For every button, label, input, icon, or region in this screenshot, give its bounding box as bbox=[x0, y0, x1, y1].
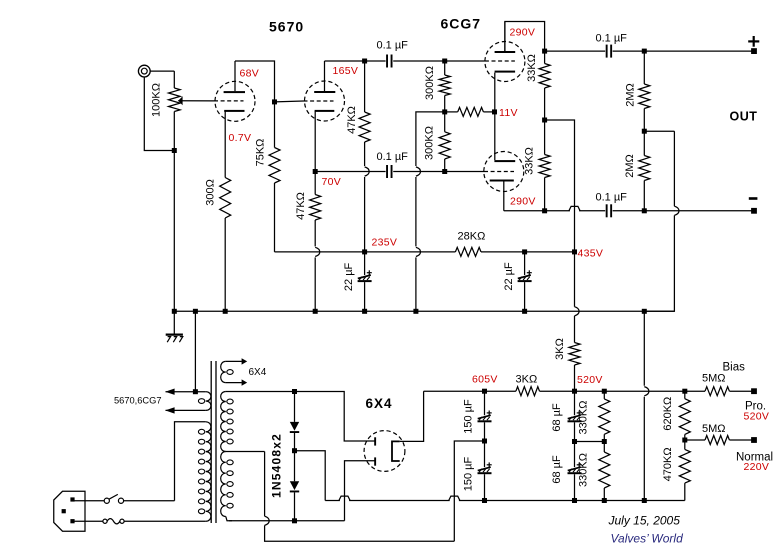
node 330K top junction bbox=[602, 389, 607, 394]
svg-text:68V: 68V bbox=[240, 68, 260, 80]
winding heater-6X4 loops bbox=[221, 361, 234, 382]
arrow heater-6X4 bottom bbox=[242, 379, 248, 385]
label 5670,6CG7 bbox=[114, 396, 162, 406]
resistor R18 330K zigzag bbox=[599, 452, 610, 488]
svg-text:330KΩ: 330KΩ bbox=[578, 401, 590, 435]
svg-text:3KΩ: 3KΩ bbox=[554, 338, 566, 360]
svg-text:OUT: OUT bbox=[730, 110, 758, 124]
svg-text:300Ω: 300Ω bbox=[205, 179, 217, 206]
wire switch to primary riser bbox=[123, 500, 174, 502]
svg-text:July 15, 2005: July 15, 2005 bbox=[608, 514, 681, 528]
wire R7 bottom to node D bbox=[444, 159, 446, 172]
node rail A 68uF bbox=[572, 498, 577, 503]
label plus symbol bbox=[748, 36, 759, 47]
svg-text:165V: 165V bbox=[333, 65, 359, 77]
wire E-drop middle bbox=[415, 177, 417, 246]
label Normal bbox=[736, 452, 773, 464]
tube V2b plate lead down bbox=[503, 182, 505, 211]
label Pro. bbox=[745, 401, 766, 413]
label 290V upper bbox=[510, 27, 536, 39]
wire hop to C4 bbox=[579, 210, 605, 212]
label 6CG7 title bbox=[441, 16, 482, 32]
wire 3K to 520V node bbox=[540, 390, 575, 392]
node D junction (444.7,171.5) bbox=[442, 169, 447, 174]
label 11V bbox=[499, 107, 518, 119]
winding primary loops bbox=[198, 422, 211, 521]
wire R11 bottom to node I bbox=[643, 109, 645, 132]
capacitor C6 22uF electrolytic bbox=[518, 270, 532, 282]
wire -row to hop bbox=[545, 210, 570, 212]
wire C1 to node C bbox=[393, 60, 445, 62]
terminal minus-out square bbox=[751, 208, 757, 214]
tube V2b cathode bar bbox=[494, 160, 515, 162]
svg-text:520V: 520V bbox=[577, 374, 603, 386]
wire fb-gnd hop over B+ row bbox=[644, 387, 649, 396]
label 620K&#937; bbox=[662, 397, 674, 431]
wire to 435V node bbox=[525, 251, 575, 253]
label 290V lower bbox=[510, 196, 536, 208]
svg-text:68 µF: 68 µF bbox=[551, 403, 563, 432]
wire R5 top lead bbox=[314, 172, 316, 195]
tube V1b cathode bar bbox=[315, 110, 335, 112]
svg-text:0.1 µF: 0.1 µF bbox=[377, 151, 409, 163]
wire diode mid to rail A corner bbox=[295, 451, 326, 501]
wire mid node down to C8 bbox=[484, 441, 486, 467]
node gnd R5 bbox=[313, 309, 318, 314]
resistor R20 5M zigzag bbox=[705, 436, 729, 445]
label 33K&#937; upper bbox=[526, 54, 538, 82]
svg-text:5670: 5670 bbox=[269, 19, 304, 35]
wire pot top lead bbox=[173, 71, 175, 88]
wire center tap hop over sec-bottom bbox=[265, 516, 270, 525]
wire E-drop lower bbox=[415, 257, 417, 311]
svg-text:5670,6CG7: 5670,6CG7 bbox=[114, 396, 162, 406]
potentiometer wiper arrow bbox=[178, 96, 182, 105]
wire R8 to 11V node bbox=[483, 111, 494, 113]
label 6X4 title bbox=[366, 396, 393, 411]
label 68uF first bbox=[551, 403, 563, 432]
svg-text:28KΩ: 28KΩ bbox=[458, 231, 486, 243]
wire -row hop over 435V line bbox=[569, 206, 580, 210]
wire 22uF-1 lower lead bbox=[364, 282, 366, 311]
label 150uF first bbox=[463, 399, 475, 434]
diode D2 1N5408 bbox=[290, 481, 299, 492]
label 470K&#937; bbox=[662, 447, 674, 481]
wire +out node to R9 bbox=[544, 51, 546, 63]
wire pot bottom to ground rail bbox=[173, 112, 175, 312]
wire fb-gnd drop lower bbox=[643, 397, 645, 501]
wire primary riser bbox=[175, 422, 206, 501]
wire secondary bottom row bbox=[229, 520, 345, 522]
wire 68uF mid row bbox=[575, 441, 605, 443]
wire node I down to R12 bbox=[643, 131, 645, 155]
svg-text:2MΩ: 2MΩ bbox=[625, 83, 637, 107]
tube 6X4 cathode bracket bbox=[392, 441, 400, 461]
label C2 0.1uF bbox=[377, 151, 409, 163]
wire R10 bottom to -out row bbox=[544, 178, 546, 211]
tube V1b envelope bbox=[305, 81, 345, 121]
svg-text:Bias: Bias bbox=[723, 362, 746, 374]
wire R5 hop over 235V rail bbox=[315, 247, 320, 256]
wire V2a plate rail bbox=[505, 22, 545, 52]
wire secondary bottom bend bbox=[226, 517, 232, 521]
label 220V red bbox=[744, 461, 770, 473]
wire 330K-1 bottom lead bbox=[603, 434, 605, 441]
svg-text:330KΩ: 330KΩ bbox=[578, 453, 590, 487]
label 1N5408x2 bbox=[270, 433, 284, 498]
terminal bias square bbox=[751, 388, 757, 394]
label 5670 title bbox=[269, 19, 304, 35]
resistor R17 330K zigzag bbox=[599, 399, 610, 434]
node bias mid junction bbox=[682, 438, 687, 443]
tube V2a grid dashed line bbox=[485, 60, 515, 62]
terminal normal square bbox=[751, 437, 757, 443]
svg-text:620KΩ: 620KΩ bbox=[662, 397, 674, 431]
wire B+ rail to 605V node bbox=[424, 390, 485, 392]
node F junction (544.6,120) bbox=[542, 118, 547, 123]
node diode bottom junction bbox=[292, 518, 297, 523]
label 165V bbox=[333, 65, 359, 77]
node heater-left junction bbox=[193, 389, 198, 394]
label 6X4 small bbox=[249, 367, 267, 378]
AC plug outline bbox=[54, 491, 85, 531]
wire 330K-2 bottom lead bbox=[603, 488, 605, 501]
node gnd 22uF-2 bbox=[522, 309, 527, 314]
tube V2a plate lead bbox=[504, 22, 506, 52]
label 70V bbox=[322, 176, 342, 188]
wire rail A segment 3 bbox=[459, 500, 685, 502]
wire 22uF-2 lower lead bbox=[524, 282, 526, 311]
wire node I right bbox=[644, 130, 674, 132]
svg-text:22 µF: 22 µF bbox=[503, 262, 515, 291]
wire 330K-2 top lead bbox=[603, 442, 605, 453]
svg-text:0.1 µF: 0.1 µF bbox=[377, 40, 409, 52]
label Valves World bbox=[611, 532, 684, 546]
wire 330K-1 top lead bbox=[603, 391, 605, 399]
label 435V bbox=[578, 248, 604, 260]
resistor R8 grid stopper zigzag bbox=[458, 107, 484, 116]
svg-text:290V: 290V bbox=[510, 196, 536, 208]
node 22uF-2 top junction bbox=[522, 249, 527, 254]
tube V1a envelope bbox=[215, 81, 255, 121]
label 300K&#937; upper bbox=[424, 66, 436, 100]
wire 3K bottom to 520V node bbox=[574, 365, 576, 391]
tube V1a cathode lead bbox=[224, 111, 226, 178]
node I junction (644.3,131.2) bbox=[642, 129, 647, 134]
capacitor C1 0.1uF bbox=[386, 55, 392, 68]
wire 605V to 3K bbox=[485, 390, 516, 392]
wire node C down to R6 bbox=[444, 61, 446, 75]
wire ground rail bbox=[172, 310, 674, 312]
label 68V bbox=[240, 68, 260, 80]
node rail A 330K bbox=[602, 498, 607, 503]
wire 235V rail left segment bbox=[275, 251, 365, 253]
wire fuse to primary bottom bbox=[124, 520, 206, 522]
wire fb drop upper bbox=[673, 131, 675, 206]
wire V1b plate rail bbox=[325, 60, 365, 62]
svg-text:22 µF: 22 µF bbox=[343, 262, 355, 291]
tube 6X4 plate2 bar bbox=[374, 457, 376, 465]
svg-text:3KΩ: 3KΩ bbox=[516, 374, 538, 386]
winding heater-left bottom wire bbox=[166, 409, 206, 411]
capacitor C10 68uF electrolytic bbox=[568, 462, 582, 474]
wire V2b plate to -row bbox=[504, 210, 545, 212]
label 605V bbox=[472, 374, 498, 386]
wire C10 to rail A bbox=[574, 474, 576, 500]
resistor R7 300K zigzag bbox=[439, 132, 450, 159]
wire 235V rail segment 3 bbox=[365, 251, 456, 253]
svg-text:100KΩ: 100KΩ bbox=[151, 83, 163, 117]
wire node B down to R4 bbox=[364, 61, 366, 112]
label 300K&#937; lower bbox=[424, 126, 436, 160]
label 47K&#937; plate load bbox=[346, 106, 358, 134]
winding heater-left loops bbox=[198, 392, 211, 411]
label 235V bbox=[372, 237, 398, 249]
switch S1 bbox=[104, 494, 123, 503]
node 435V junction bbox=[572, 249, 577, 254]
node 330K mid junction bbox=[602, 439, 607, 444]
terminal plus-out square bbox=[751, 48, 757, 54]
node rail A 150uF bbox=[482, 498, 487, 503]
tube V1b plate bar bbox=[314, 91, 335, 93]
tube 6X4 envelope bbox=[364, 431, 405, 472]
tube V2b plate bar bbox=[490, 180, 514, 182]
capacitor C7 150uF electrolytic bbox=[478, 411, 492, 423]
wire 5M to bias terminal bbox=[729, 390, 754, 392]
wire rail B riser bbox=[454, 441, 484, 541]
resistor R5 47K cathode zigzag bbox=[310, 195, 321, 221]
svg-text:235V: 235V bbox=[372, 237, 398, 249]
wire 470K to rail A end bbox=[684, 483, 686, 500]
node gnd fb bbox=[642, 309, 647, 314]
AC plug pin1 bbox=[70, 497, 74, 501]
tube V2b grid dashed line bbox=[484, 171, 514, 173]
wire bias mid down to 470K bbox=[684, 440, 686, 449]
resistor R12 2M zigzag bbox=[639, 156, 650, 181]
wire 22uF-1 upper lead bbox=[364, 252, 366, 275]
svg-text:68 µF: 68 µF bbox=[551, 455, 563, 484]
svg-text:0.1 µF: 0.1 µF bbox=[596, 192, 628, 204]
wire node F down to R10 bbox=[544, 120, 546, 155]
wire R3 bottom to 235V rail bbox=[274, 183, 276, 252]
svg-text:300KΩ: 300KΩ bbox=[424, 66, 436, 100]
node diode mid junction bbox=[292, 448, 297, 453]
wire 435V down to rail hop bbox=[574, 252, 576, 307]
label 520V red right bbox=[744, 411, 770, 423]
wire 70V node to C2 bbox=[315, 171, 385, 173]
svg-text:150 µF: 150 µF bbox=[463, 456, 475, 491]
winding secondary upper bbox=[221, 392, 234, 452]
wire wiper to V1a grid bbox=[178, 100, 214, 102]
wire node H to +terminal bbox=[644, 50, 754, 52]
node gnd R2 bbox=[223, 309, 228, 314]
wire rail A segment 1 bbox=[325, 500, 340, 502]
label 300&#937; bbox=[205, 179, 217, 206]
wire rail A segment 2 bbox=[349, 500, 450, 502]
label 22uF second bbox=[503, 262, 515, 291]
capacitor C3 0.1uF bbox=[606, 45, 612, 58]
svg-text:33KΩ: 33KΩ bbox=[524, 147, 536, 175]
node 150uF mid junction bbox=[482, 439, 487, 444]
svg-text:47KΩ: 47KΩ bbox=[295, 192, 307, 220]
capacitor C9 68uF electrolytic bbox=[568, 411, 582, 423]
wire node E to R8 bbox=[445, 111, 458, 113]
label 150uF second bbox=[463, 456, 475, 491]
label 520V bbox=[577, 374, 603, 386]
wire 28K to 22uF-2 node bbox=[481, 251, 525, 253]
wire C8 to rail A bbox=[484, 474, 486, 500]
wire node A to V1b grid bbox=[275, 100, 304, 103]
wire node E left then down bbox=[416, 112, 445, 166]
label 2M&#937; lower bbox=[624, 154, 636, 178]
resistor R10 33K zigzag bbox=[539, 155, 550, 178]
resistor R11 2M zigzag bbox=[639, 84, 650, 109]
node diode top junction bbox=[292, 389, 297, 394]
arrow heater-left bottom bbox=[165, 407, 174, 413]
label 28K&#937; bbox=[458, 231, 486, 243]
wire C9 to mid bbox=[574, 422, 576, 441]
node H junction (644.3,51.1) bbox=[642, 49, 647, 54]
ground symbol bbox=[166, 311, 183, 342]
wire plug to switch bbox=[74, 500, 104, 502]
tube V2a cathode lead bbox=[494, 73, 496, 112]
resistor R2 300ohm zigzag bbox=[220, 178, 231, 219]
wire R6 bottom to node E bbox=[444, 96, 446, 112]
wire 330K node to bias node bbox=[604, 390, 685, 392]
wire secondary top to plate1 drop bbox=[295, 392, 375, 442]
wire node C to V2a grid bbox=[445, 60, 485, 62]
resistor R13 28K zigzag bbox=[455, 247, 481, 256]
tube V1b plate lead bbox=[324, 61, 326, 91]
resistor R4 47K zigzag bbox=[359, 112, 370, 142]
node A junction (274.5,101.9) bbox=[272, 99, 277, 104]
label 3K&#937; vertical bbox=[554, 338, 566, 360]
tube 6X4 plate1 bar bbox=[374, 437, 376, 445]
resistor R6 300K zigzag bbox=[439, 75, 450, 96]
svg-text:6CG7: 6CG7 bbox=[441, 16, 482, 32]
node C junction (444.7,61) bbox=[442, 59, 447, 64]
tube V2b envelope bbox=[484, 152, 524, 192]
wire R4 bottom lower bbox=[364, 177, 366, 252]
label 2M&#937; upper bbox=[625, 83, 637, 107]
node 70V junction bbox=[313, 169, 318, 174]
resistor R15 3K zigzag bbox=[516, 387, 540, 396]
svg-text:5MΩ: 5MΩ bbox=[702, 423, 726, 435]
capacitor C8 150uF electrolytic bbox=[478, 462, 492, 474]
wire heater ground drop bbox=[194, 311, 196, 391]
node gnd heater drop bbox=[193, 309, 198, 314]
tube V1a cathode bar bbox=[224, 110, 244, 112]
wire node G to -terminal bbox=[644, 210, 754, 212]
svg-text:435V: 435V bbox=[578, 248, 604, 260]
wire R2 bottom to ground rail bbox=[224, 218, 226, 311]
wire bias top to 620K bbox=[684, 391, 686, 399]
svg-text:300KΩ: 300KΩ bbox=[424, 126, 436, 160]
label OUT bbox=[730, 110, 758, 124]
label 68uF second bbox=[551, 455, 563, 484]
svg-text:5MΩ: 5MΩ bbox=[702, 373, 726, 385]
label 330K&#937; first bbox=[578, 401, 590, 435]
winding heater-left top wire bbox=[166, 391, 206, 393]
node +out junction (544.6,51.1) bbox=[542, 49, 547, 54]
wire secondary top bbox=[226, 391, 295, 393]
AC plug pin3 bbox=[70, 519, 74, 523]
wire node D to V2b grid bbox=[445, 171, 484, 173]
arrow heater-left top bbox=[165, 389, 174, 395]
label 0.7V bbox=[229, 132, 252, 144]
wire 435V hop over ground rail bbox=[575, 307, 580, 316]
node 11V junction bbox=[492, 109, 497, 114]
svg-text:6X4: 6X4 bbox=[249, 367, 267, 378]
winding heater-6X4 top wire bbox=[226, 360, 242, 362]
wire rail A hop over plate2 drop bbox=[339, 496, 350, 500]
svg-text:0.1 µF: 0.1 µF bbox=[596, 33, 628, 45]
label C1 0.1uF bbox=[377, 40, 409, 52]
wire jack tip to pot top bbox=[150, 70, 174, 72]
wire R12 bottom to node G bbox=[643, 181, 645, 211]
wire mid down to C10 bbox=[574, 442, 576, 468]
svg-text:Valves’ World: Valves’ World bbox=[611, 532, 684, 546]
label C4 0.1uF bbox=[596, 192, 628, 204]
capacitor C2 0.1uF bbox=[386, 165, 392, 178]
label 5M&#937; lower bbox=[702, 423, 726, 435]
wire R4 line hop over row bbox=[365, 167, 370, 176]
wire 435V to 3K bbox=[574, 316, 576, 343]
arrow heater-6X4 top bbox=[242, 358, 248, 364]
wire center tap drop lower bbox=[265, 525, 455, 541]
wire 5M2 to normal terminal bbox=[729, 439, 754, 441]
label July 15 2005 bbox=[608, 514, 681, 528]
wire center tap bbox=[226, 451, 265, 453]
resistor R3 75K zigzag bbox=[269, 148, 280, 184]
svg-text:11V: 11V bbox=[499, 107, 518, 119]
wire 6X4 plate2 drop bbox=[345, 461, 375, 521]
svg-text:33KΩ: 33KΩ bbox=[526, 54, 538, 82]
resistor R14 3K zigzag bbox=[569, 343, 580, 366]
resistor R21 470K zigzag bbox=[679, 449, 690, 483]
capacitor C5 22uF electrolytic bbox=[358, 270, 372, 282]
svg-text:470KΩ: 470KΩ bbox=[662, 447, 674, 481]
diode D1 1N5408 bbox=[290, 422, 299, 433]
node -row junction (544.6,210.8) bbox=[542, 208, 547, 213]
svg-text:6X4: 6X4 bbox=[366, 396, 393, 411]
tube V1a grid dashed line bbox=[214, 100, 244, 102]
svg-text:0.7V: 0.7V bbox=[229, 132, 252, 144]
resistor R9 33K zigzag bbox=[539, 64, 550, 89]
wire 620K to bias mid bbox=[684, 434, 686, 440]
wire R5 bottom lower bbox=[314, 257, 316, 311]
winding secondary lower bbox=[221, 452, 234, 517]
wire 22uF-2 upper lead bbox=[524, 252, 526, 275]
wire diode string top bbox=[294, 392, 296, 422]
node jack-ground junction bbox=[172, 148, 177, 153]
wire R5 bottom upper bbox=[314, 220, 316, 246]
wire E-drop hop over 235V rail bbox=[416, 247, 421, 256]
resistor R19 620K zigzag bbox=[679, 399, 690, 435]
svg-text:2MΩ: 2MΩ bbox=[624, 154, 636, 178]
label minus symbol bbox=[749, 197, 758, 200]
tube V2a cathode bar bbox=[495, 71, 515, 73]
wire bias mid to 5M2 bbox=[685, 439, 705, 441]
svg-text:150 µF: 150 µF bbox=[463, 399, 475, 434]
node B junction (364.6,61) bbox=[362, 59, 367, 64]
wire C3 to node H bbox=[613, 50, 645, 52]
label 330K&#937; second bbox=[578, 453, 590, 487]
node gnd 22uF-1 bbox=[362, 309, 367, 314]
svg-text:70V: 70V bbox=[322, 176, 342, 188]
label C3 0.1uF bbox=[596, 33, 628, 45]
wire node F to 435V drop bbox=[545, 120, 575, 252]
